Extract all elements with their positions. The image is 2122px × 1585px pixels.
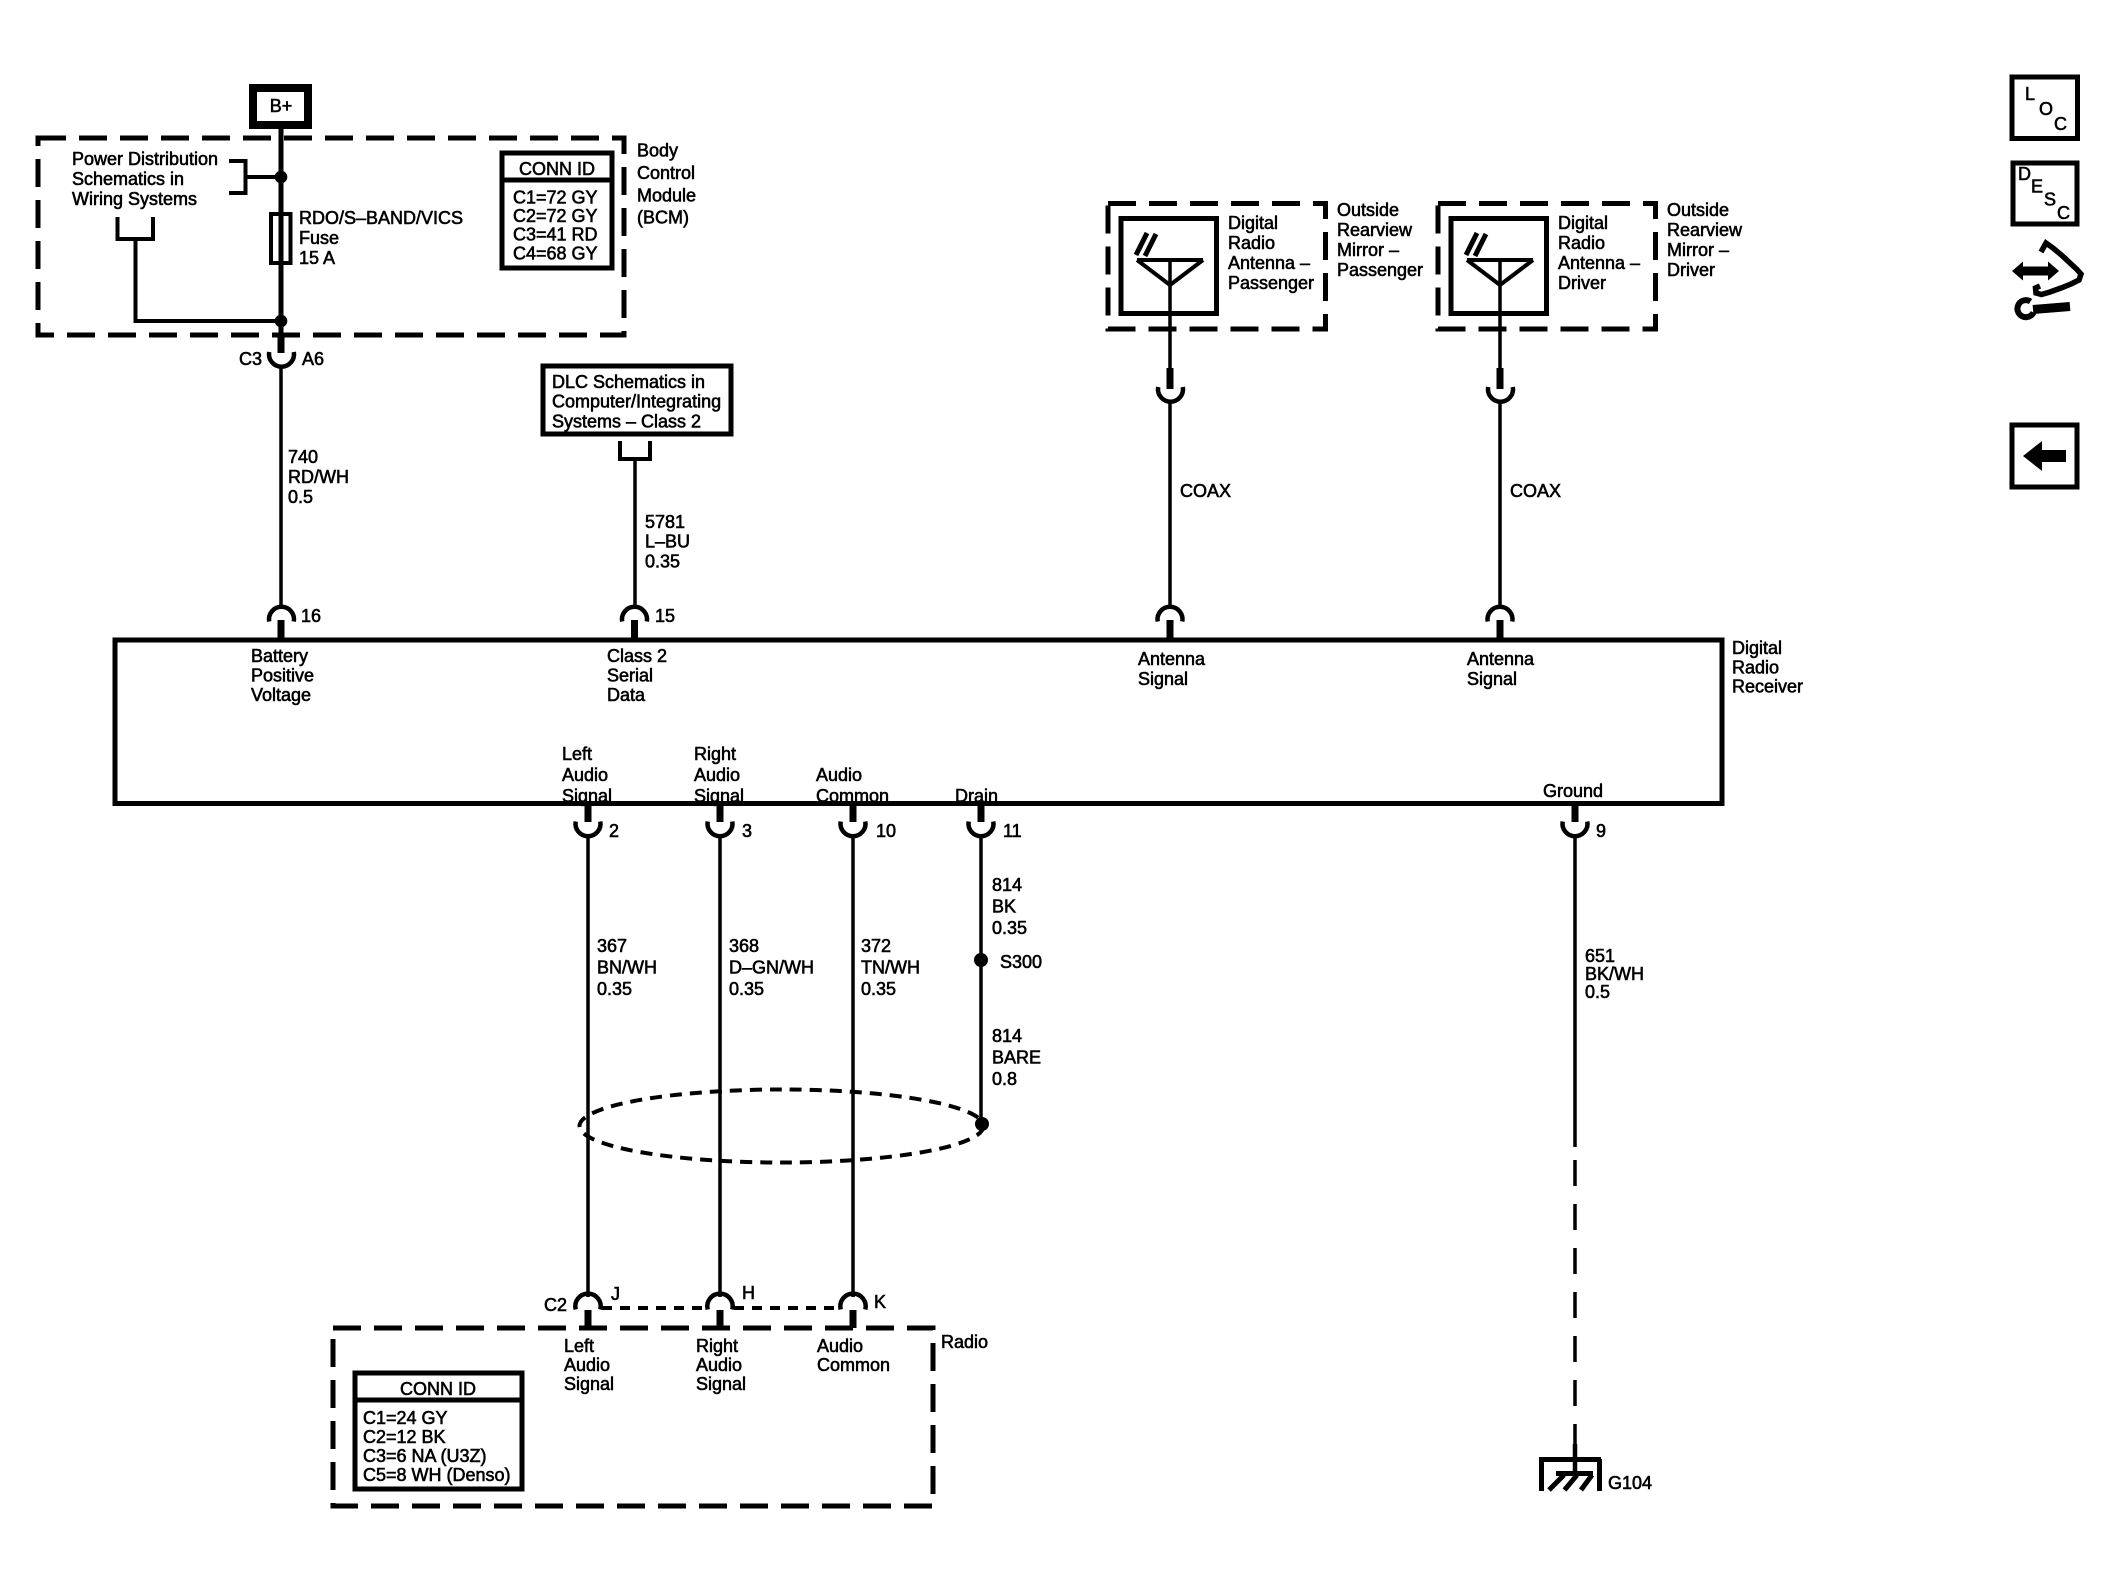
connector coax passenger pin stub bbox=[1167, 368, 1174, 389]
connector pin 15 cup bbox=[622, 607, 647, 622]
twisted pair ellipse bbox=[580, 1090, 984, 1163]
svg-text:15: 15 bbox=[655, 606, 675, 626]
svg-text:Drain: Drain bbox=[955, 786, 998, 806]
connector pin 11 cup bbox=[969, 822, 994, 837]
module Radio dashed box bbox=[333, 1328, 933, 1506]
module Digital Radio Receiver box bbox=[115, 640, 1722, 804]
svg-text:G104: G104 bbox=[1608, 1473, 1652, 1493]
wire 814 BK drain bbox=[979, 834, 983, 1124]
svg-text:11: 11 bbox=[1003, 821, 1022, 841]
antenna passenger inner box bbox=[1121, 219, 1217, 314]
svg-text:DLC Schematics inComputer/Inte: DLC Schematics inComputer/IntegratingSys… bbox=[552, 372, 721, 431]
svg-text:J: J bbox=[611, 1284, 620, 1304]
svg-text:B+: B+ bbox=[270, 96, 293, 116]
icon LOC bbox=[2012, 77, 2078, 139]
wire 367 BN/WH bbox=[586, 834, 590, 1297]
connector pin 9 cup bbox=[1563, 822, 1588, 837]
connector C2 pin H cup bbox=[707, 1294, 732, 1310]
pin 15 stub bbox=[631, 620, 638, 640]
pin 2 stub bbox=[585, 804, 592, 823]
junction bbox=[275, 171, 288, 184]
wire antenna driver bbox=[1498, 260, 1502, 370]
wire from bracket bbox=[136, 239, 282, 321]
wire 740 RD/WH bbox=[279, 365, 283, 608]
connector pin 10 cup bbox=[841, 822, 866, 837]
svg-text:Radio: Radio bbox=[941, 1332, 988, 1352]
svg-text:E: E bbox=[2031, 177, 2043, 197]
icon DESC bbox=[2013, 163, 2077, 224]
connector C2 body dashed link 2 bbox=[734, 1306, 839, 1310]
svg-text:16: 16 bbox=[301, 606, 321, 626]
antenna driver pin stub bbox=[1497, 620, 1504, 640]
pin 9 stub bbox=[1572, 804, 1579, 823]
table CONN ID (BCM) bbox=[502, 153, 612, 268]
fuse RDO/S-BAND/VICS 15 A bbox=[271, 214, 291, 263]
svg-text:C3: C3 bbox=[239, 349, 262, 369]
svg-text:CONN ID: CONN ID bbox=[519, 159, 595, 179]
ground G104 symbol bbox=[1539, 1459, 1601, 1491]
wire 651 BK/WH bbox=[1573, 834, 1577, 1147]
svg-text:COAX: COAX bbox=[1180, 481, 1231, 501]
svg-text:K: K bbox=[874, 1292, 886, 1312]
antenna passenger symbol bbox=[1136, 233, 1203, 285]
splice S300 bbox=[974, 953, 988, 967]
svg-text:2: 2 bbox=[609, 821, 619, 841]
wire 372 TN/WH bbox=[851, 834, 855, 1297]
wire B+ feed bbox=[279, 129, 284, 333]
svg-text:10: 10 bbox=[876, 821, 896, 841]
pin J stub bbox=[585, 1310, 592, 1328]
svg-text:Ground: Ground bbox=[1543, 781, 1603, 801]
svg-text:BatteryPositiveVoltage: BatteryPositiveVoltage bbox=[251, 646, 314, 705]
wire COAX passenger bbox=[1168, 400, 1172, 608]
svg-text:C1=72 GYC2=72 GYC3=41 RDC4=68: C1=72 GYC2=72 GYC3=41 RDC4=68 GY bbox=[513, 188, 598, 264]
note DLC Schematics box bbox=[543, 366, 731, 434]
svg-text:O: O bbox=[2039, 99, 2053, 119]
module BCM dashed box bbox=[38, 138, 624, 335]
icon electrical repair bbox=[2012, 243, 2081, 317]
bracket below DLC bbox=[620, 441, 650, 459]
power symbol B+ bbox=[253, 88, 308, 125]
pin 3 stub bbox=[717, 804, 724, 823]
pin 10 stub bbox=[850, 804, 857, 823]
connector C2 pin J cup bbox=[575, 1294, 600, 1310]
connector C3 pin A6 stub bbox=[278, 335, 285, 353]
connector coax driver cup bbox=[1488, 387, 1513, 402]
svg-text:L: L bbox=[2025, 84, 2035, 104]
connector pin 2 cup bbox=[576, 822, 601, 837]
svg-text:CONN ID: CONN ID bbox=[400, 1379, 476, 1399]
pin H stub bbox=[717, 1310, 724, 1328]
wire into ground bbox=[1573, 1444, 1578, 1476]
pin 16 stub bbox=[278, 620, 285, 640]
antenna driver inner box bbox=[1451, 219, 1547, 314]
svg-text:H: H bbox=[742, 1283, 755, 1303]
wire ground dashed bbox=[1573, 1160, 1577, 1452]
svg-text:3: 3 bbox=[742, 821, 752, 841]
wire 368 D-GN/WH bbox=[718, 834, 722, 1297]
wire bracket to feed bbox=[246, 175, 282, 179]
wire antenna passenger bbox=[1168, 260, 1172, 370]
pin 11 stub bbox=[978, 804, 985, 823]
junction bbox=[275, 315, 288, 328]
icon back arrow bbox=[2012, 425, 2077, 487]
connector coax driver pin stub bbox=[1497, 368, 1504, 389]
svg-text:S: S bbox=[2044, 190, 2056, 210]
module Digital Radio Antenna - Passenger dashed box bbox=[1108, 204, 1326, 330]
svg-text:A6: A6 bbox=[302, 349, 324, 369]
junction drain to shield bbox=[975, 1117, 989, 1131]
antenna driver symbol bbox=[1466, 233, 1533, 285]
connector antenna driver pin cup bbox=[1488, 607, 1513, 622]
svg-text:S300: S300 bbox=[1000, 952, 1042, 972]
connector C2 body dashed link 1 bbox=[602, 1306, 706, 1310]
connector coax passenger cup bbox=[1158, 387, 1183, 402]
table CONN ID (Radio) bbox=[355, 1373, 522, 1489]
bracket right of note bbox=[229, 161, 246, 193]
svg-text:C: C bbox=[2054, 114, 2067, 134]
svg-text:C2: C2 bbox=[544, 1295, 567, 1315]
svg-text:C: C bbox=[2057, 203, 2070, 223]
connector pin 3 cup bbox=[708, 822, 733, 837]
svg-text:9: 9 bbox=[1596, 821, 1606, 841]
connector pin 16 cup bbox=[269, 607, 294, 622]
bracket below note bbox=[118, 217, 154, 239]
antenna passenger pin stub bbox=[1167, 620, 1174, 640]
svg-text:D: D bbox=[2018, 164, 2031, 184]
connector antenna passenger pin cup bbox=[1157, 607, 1182, 622]
svg-text:COAX: COAX bbox=[1510, 481, 1561, 501]
module Digital Radio Antenna - Driver dashed box bbox=[1438, 204, 1656, 330]
wire COAX driver bbox=[1498, 400, 1502, 608]
connector C2 pin K cup bbox=[840, 1294, 865, 1310]
connector C3 pin A6 cup bbox=[269, 352, 294, 367]
pin K stub bbox=[850, 1310, 857, 1328]
wire 5781 L-BU bbox=[633, 459, 637, 608]
